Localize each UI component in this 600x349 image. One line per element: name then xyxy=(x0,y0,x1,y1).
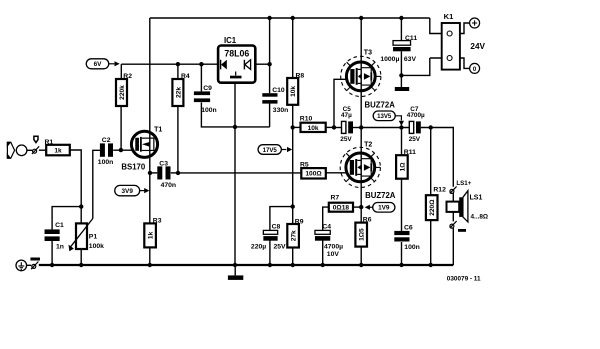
svg-text:100k: 100k xyxy=(89,243,104,250)
svg-text:BS170: BS170 xyxy=(121,162,146,171)
svg-text:100n: 100n xyxy=(404,244,420,251)
svg-text:220Ω: 220Ω xyxy=(429,199,436,216)
svg-text:R1: R1 xyxy=(45,139,54,146)
svg-text:25V: 25V xyxy=(409,136,421,143)
svg-text:6V: 6V xyxy=(94,61,103,68)
svg-text:330n: 330n xyxy=(273,107,289,114)
svg-text:1k: 1k xyxy=(148,231,155,239)
svg-text:C6: C6 xyxy=(404,225,413,232)
svg-text:100Ω: 100Ω xyxy=(305,171,322,178)
svg-text:27k: 27k xyxy=(291,230,298,241)
svg-text:K1: K1 xyxy=(444,12,454,21)
svg-text:1000µ: 1000µ xyxy=(380,56,399,63)
svg-text:R2: R2 xyxy=(123,73,132,80)
svg-text:100n: 100n xyxy=(201,107,217,114)
svg-text:17V5: 17V5 xyxy=(263,147,278,154)
svg-text:47µ: 47µ xyxy=(341,112,352,119)
svg-text:13V5: 13V5 xyxy=(377,113,392,120)
svg-text:R7: R7 xyxy=(331,195,340,202)
svg-text:C9: C9 xyxy=(203,85,212,92)
svg-text:T2: T2 xyxy=(364,141,372,148)
svg-text:LS1: LS1 xyxy=(470,195,483,202)
svg-text:C4: C4 xyxy=(322,224,331,231)
svg-text:T3: T3 xyxy=(364,49,372,56)
svg-text:25V: 25V xyxy=(340,136,352,143)
svg-text:C8: C8 xyxy=(272,224,281,231)
svg-text:0: 0 xyxy=(473,66,477,73)
svg-text:10k: 10k xyxy=(290,86,297,97)
svg-text:63V: 63V xyxy=(404,56,417,63)
svg-text:10k: 10k xyxy=(308,125,319,132)
svg-text:R9: R9 xyxy=(295,218,304,225)
svg-text:24V: 24V xyxy=(470,42,485,51)
svg-text:100n: 100n xyxy=(98,159,114,166)
svg-text:P1: P1 xyxy=(89,234,98,241)
svg-text:R11: R11 xyxy=(404,149,416,156)
svg-text:10V: 10V xyxy=(327,251,340,258)
svg-text:22k: 22k xyxy=(175,87,182,98)
svg-text:1n: 1n xyxy=(56,244,64,251)
svg-text:470n: 470n xyxy=(161,182,177,189)
svg-text:4700µ: 4700µ xyxy=(407,112,425,119)
svg-text:R6: R6 xyxy=(363,217,372,224)
svg-text:C10: C10 xyxy=(272,87,285,94)
svg-text:25V: 25V xyxy=(274,244,287,251)
svg-text:220k: 220k xyxy=(119,85,126,100)
svg-text:BUZ72A: BUZ72A xyxy=(365,191,396,200)
svg-text:C1: C1 xyxy=(55,222,64,229)
svg-text:220µ: 220µ xyxy=(251,244,266,251)
svg-text:78L06: 78L06 xyxy=(224,49,249,59)
svg-text:030079 - 11: 030079 - 11 xyxy=(447,276,481,283)
svg-text:C3: C3 xyxy=(159,160,168,167)
svg-text:R5: R5 xyxy=(300,162,309,169)
svg-text:4...8Ω: 4...8Ω xyxy=(471,214,489,221)
svg-text:1Ω: 1Ω xyxy=(399,162,406,172)
svg-text:LS1+: LS1+ xyxy=(456,180,471,187)
svg-text:T1: T1 xyxy=(154,126,162,133)
svg-text:1k: 1k xyxy=(54,147,62,154)
svg-text:1Ω5: 1Ω5 xyxy=(359,228,366,241)
svg-text:C11: C11 xyxy=(405,35,417,42)
svg-text:R8: R8 xyxy=(296,72,305,79)
svg-text:R10: R10 xyxy=(300,115,313,122)
svg-text:IC1: IC1 xyxy=(224,36,237,45)
svg-text:R3: R3 xyxy=(153,218,162,225)
svg-text:4700µ: 4700µ xyxy=(324,244,343,251)
svg-text:R12: R12 xyxy=(433,186,446,193)
svg-text:0Ω18: 0Ω18 xyxy=(333,205,350,212)
svg-text:BUZ72A: BUZ72A xyxy=(365,100,396,109)
svg-text:3V9: 3V9 xyxy=(122,188,134,195)
svg-text:C2: C2 xyxy=(102,137,111,144)
svg-text:1V9: 1V9 xyxy=(378,205,390,212)
svg-text:R4: R4 xyxy=(181,73,190,80)
